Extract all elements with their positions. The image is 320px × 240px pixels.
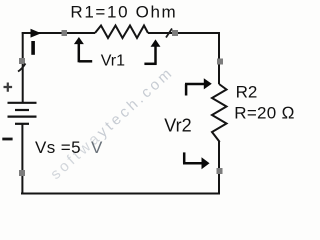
wire left upper — [22, 32, 24, 102]
junction handle right wire lower — [217, 168, 223, 174]
svg-text:R1=10 Ohm: R1=10 Ohm — [70, 2, 177, 21]
battery Vs plate long top — [8, 102, 37, 104]
junction handle left wire upper — [19, 58, 25, 64]
wire bottom — [21, 193, 220, 195]
svg-text:V: V — [91, 138, 103, 157]
Vr2 polarity arrow bottom — [183, 152, 209, 168]
junction handle top wire right — [172, 30, 178, 36]
wire right upper — [218, 32, 220, 84]
svg-text:Vr2: Vr2 — [164, 115, 191, 135]
battery Vs plate long bottom — [8, 115, 37, 117]
wire top — [22, 32, 219, 34]
junction handle top wire left — [62, 30, 68, 36]
battery minus sign — [2, 138, 12, 141]
Vr2 polarity arrow top — [185, 79, 211, 95]
slash mark left wire — [18, 64, 26, 72]
battery plus sign — [4, 83, 13, 92]
slash mark top wire right — [166, 29, 172, 38]
label I — [31, 41, 35, 55]
current arrow — [31, 29, 42, 38]
Vr1 polarity arrow right — [144, 40, 159, 65]
svg-text:R=20 Ω: R=20 Ω — [234, 104, 294, 123]
battery Vs plate short bottom — [15, 123, 29, 125]
Vr1 polarity arrow left — [75, 38, 92, 62]
svg-text:softwaytech.com: softwaytech.com — [47, 63, 177, 183]
battery Vs plate short — [15, 109, 29, 111]
svg-text:Vs =5: Vs =5 — [35, 138, 81, 157]
resistor R2 — [212, 84, 227, 142]
wire left lower — [21, 124, 23, 194]
svg-text:R2: R2 — [236, 83, 258, 102]
wire right lower — [218, 141, 220, 194]
junction handle right wire upper — [217, 59, 223, 65]
resistor R1 — [95, 26, 148, 39]
junction handle left wire lower — [19, 170, 25, 176]
svg-text:Vr1: Vr1 — [101, 52, 125, 69]
